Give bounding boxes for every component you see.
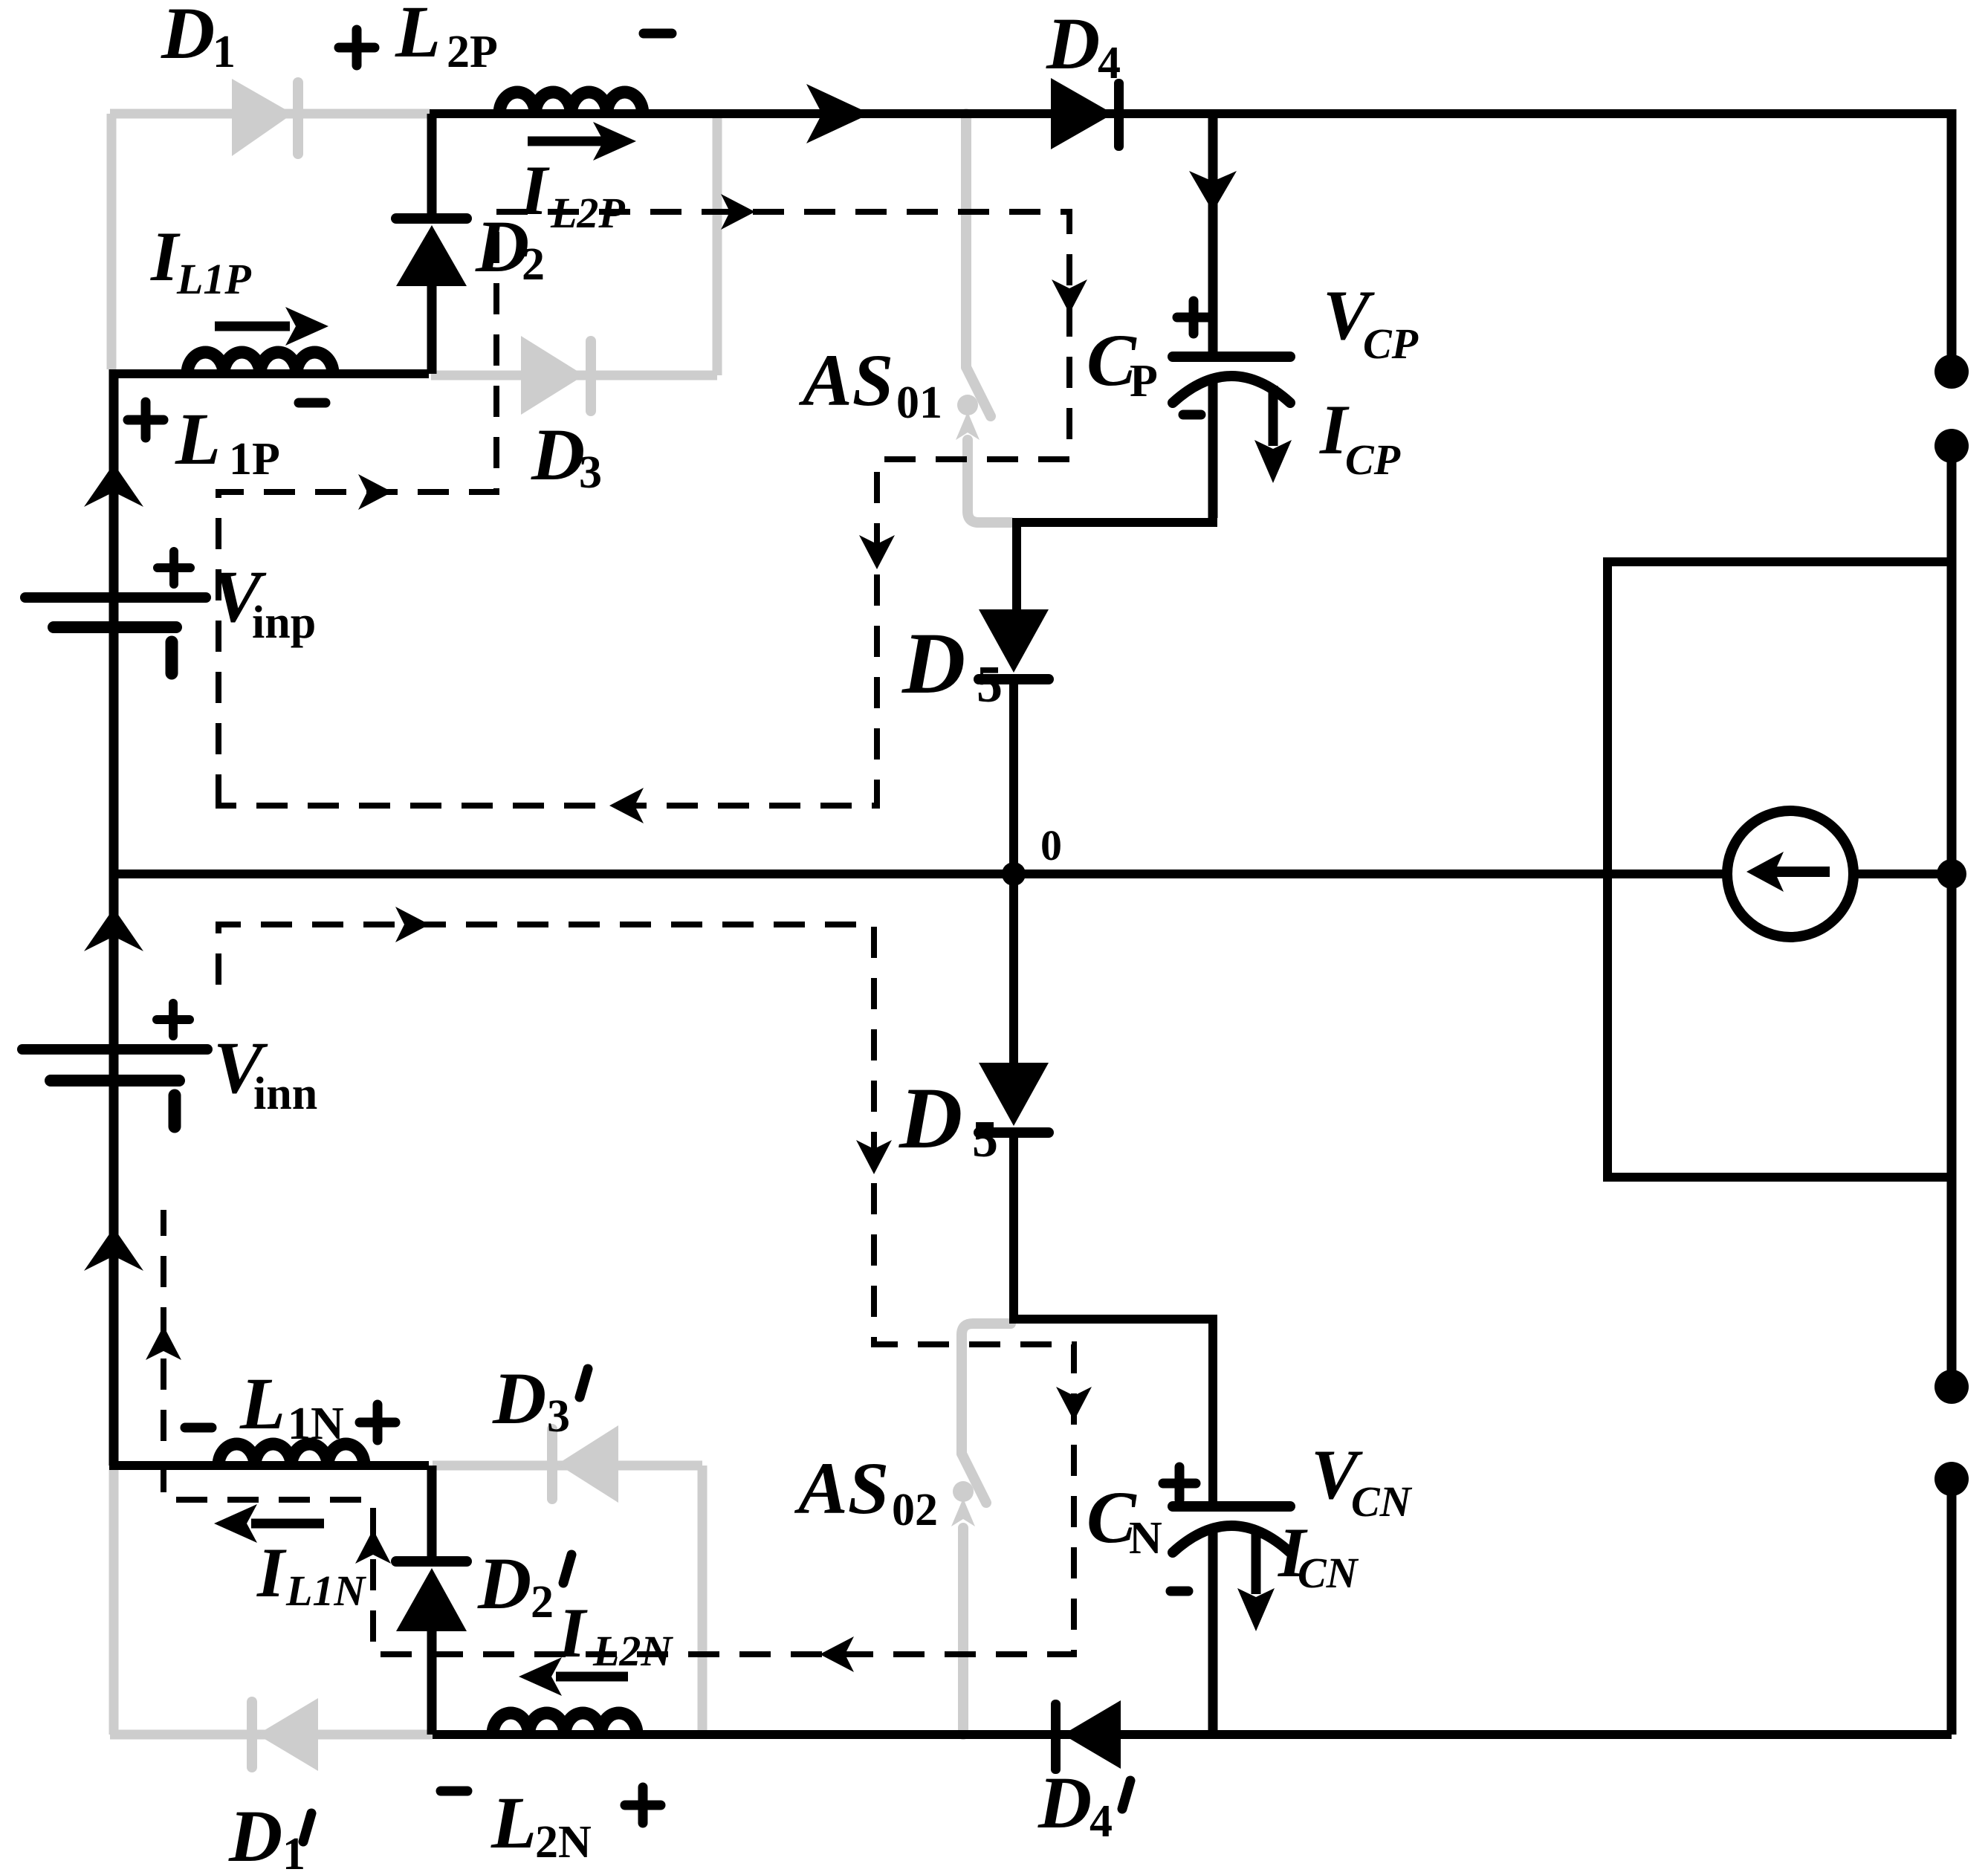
current arrow I_L2N: [556, 1672, 628, 1682]
svg-text:0: 0: [1040, 821, 1062, 870]
diode D1' (gray): [247, 1697, 318, 1772]
diode D2: [427, 114, 437, 213]
diode D2': [427, 1466, 437, 1556]
svg-text:AS: AS: [798, 339, 893, 421]
svg-text:D: D: [228, 1795, 282, 1875]
svg-text:I: I: [256, 1533, 287, 1612]
inductor L1P: [187, 352, 333, 374]
svg-text:I: I: [557, 1593, 588, 1672]
arrow on top wire: [806, 84, 870, 143]
svg-text:4: 4: [1089, 1796, 1113, 1847]
svg-text:2: 2: [531, 1577, 554, 1628]
svg-text:L: L: [175, 398, 221, 480]
svg-text:01: 01: [896, 378, 942, 428]
svg-text:inp: inp: [252, 598, 316, 648]
svg-text:02: 02: [892, 1485, 938, 1535]
svg-text:1P: 1P: [229, 434, 280, 485]
svg-text:N: N: [1129, 1513, 1162, 1564]
svg-text:5: 5: [977, 656, 1003, 713]
diode D3' branch (gray): [433, 1466, 702, 1735]
wire bottom: [433, 1730, 1952, 1739]
svg-text:5: 5: [972, 1111, 998, 1168]
svg-text:CN: CN: [1298, 1549, 1359, 1597]
wire jog D5' to CN: [1014, 1133, 1213, 1506]
svg-text:D: D: [492, 1357, 546, 1440]
svg-text:L: L: [239, 1362, 285, 1445]
battery Vinn: [22, 1049, 207, 1127]
inductor L2P: [499, 92, 643, 114]
arrow up on left wire (below mid): [84, 908, 143, 951]
diode D4: [1051, 78, 1124, 151]
gray wire bottom-left (D1' branch): [110, 1466, 433, 1735]
svg-text:L2N: L2N: [592, 1627, 673, 1675]
svg-text:L: L: [395, 0, 441, 73]
svg-text:CN: CN: [1351, 1477, 1413, 1526]
capacitor CN: [1173, 1506, 1290, 1552]
svg-text:CP: CP: [1345, 435, 1401, 484]
svg-text:I: I: [150, 217, 181, 296]
label + L2P -: [339, 30, 672, 65]
wire jog CP to D5: [1017, 518, 1213, 609]
wire right vertical with port gaps: [1947, 109, 1957, 1735]
svg-text:L1P: L1P: [176, 255, 251, 303]
arrow up on left wire (top): [84, 464, 143, 507]
svg-text:L1N: L1N: [285, 1567, 366, 1615]
wire L1N: [109, 1461, 429, 1470]
inductor L1N: [218, 1444, 364, 1466]
current arrow I_L2P: [528, 137, 603, 146]
svg-text:4: 4: [1098, 38, 1121, 88]
diode D4': [1051, 1700, 1121, 1774]
label - L2N +: [441, 1787, 661, 1823]
diode D1 (gray): [232, 77, 303, 159]
current arrow I_L1N: [251, 1519, 324, 1529]
svg-text:P: P: [1130, 356, 1158, 407]
wire middle: [114, 870, 1952, 878]
node 0: [1002, 862, 1026, 886]
dashed loop top: [218, 212, 1069, 806]
dashed loop arrows bottom: [395, 907, 430, 942]
svg-text:D: D: [161, 0, 215, 74]
label + L1P -: [128, 402, 326, 438]
current source: [1727, 811, 1853, 937]
label - L1N +: [185, 1405, 395, 1440]
diode D3 branch (gray): [431, 114, 717, 375]
current arrow I_CP: [1269, 386, 1278, 446]
dashed loop arrows top: [358, 474, 392, 510]
svg-text:2: 2: [522, 239, 545, 290]
diode D5: [979, 609, 1049, 673]
wire top: [430, 109, 1952, 118]
switch AS01 (gray): [966, 114, 1011, 522]
svg-text:AS: AS: [794, 1447, 889, 1529]
arrow up on left wire (above L1N corner): [84, 1228, 143, 1271]
current arrow I_L1P: [215, 322, 290, 331]
svg-text:D: D: [1037, 1761, 1092, 1844]
switch AS02 (gray): [962, 1324, 1011, 1735]
wire L1P: [109, 369, 429, 378]
port node dots right: [1934, 354, 1969, 1496]
svg-text:D: D: [1046, 2, 1100, 85]
wire left vertical: [109, 369, 119, 1466]
svg-text:CP: CP: [1363, 320, 1419, 368]
battery Vinp: [25, 598, 206, 673]
svg-text:1: 1: [213, 27, 236, 77]
svg-text:2N: 2N: [535, 1817, 592, 1868]
svg-text:D: D: [899, 1069, 962, 1167]
svg-text:1N: 1N: [288, 1399, 344, 1449]
capacitor CP: [1173, 357, 1290, 403]
svg-text:D: D: [531, 413, 585, 496]
diode D5': [1009, 874, 1018, 1063]
capacitor CP lead with arrow: [1208, 114, 1218, 357]
dashed loop bottom: [163, 924, 1074, 1654]
svg-text:D: D: [901, 615, 965, 712]
svg-text:D: D: [477, 1542, 531, 1625]
svg-text:3: 3: [579, 447, 602, 498]
inductor L2N: [493, 1713, 637, 1735]
current arrow I_CN: [1252, 1534, 1261, 1594]
gray wire top-left (D1 branch): [110, 114, 430, 369]
svg-text:L: L: [490, 1781, 537, 1864]
svg-text:2P: 2P: [447, 27, 498, 77]
svg-text:inn: inn: [253, 1069, 317, 1119]
svg-text:3: 3: [547, 1391, 570, 1442]
load box: [1607, 562, 1952, 1177]
